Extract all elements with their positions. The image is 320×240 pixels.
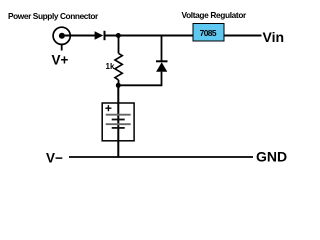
wire zener cathode lead from top rail: [161, 36, 163, 62]
svg-text:1k: 1k: [106, 62, 115, 71]
battery cell plate short (negative): [112, 119, 125, 121]
battery BT1 enclosure box: [102, 103, 134, 141]
svg-text:GND: GND: [256, 149, 287, 165]
label GND: [256, 149, 287, 165]
label "Voltage Regulator": [182, 10, 248, 20]
battery cell plate long (positive, top): [106, 114, 131, 116]
svg-text:V−: V−: [46, 151, 63, 166]
wire lower link from node B to zener anode: [118, 84, 161, 86]
node B junction dot (resistor bottom / battery top): [116, 83, 121, 88]
resistor R1 zigzag: [115, 53, 122, 80]
battery polarity + mark: [105, 105, 111, 111]
label Vin: [263, 29, 285, 45]
wire top rail from regulator output to Vin terminal: [224, 35, 262, 37]
power supply connector J1 (barrel jack circle): [53, 27, 70, 50]
svg-text:7085: 7085: [200, 28, 217, 38]
wire top rail from D1 cathode through node A to regulator input: [105, 35, 193, 37]
wire zener anode lead down to lower link: [161, 72, 163, 87]
svg-text:V+: V+: [52, 53, 69, 68]
label V-: [46, 151, 63, 166]
wire resistor bottom lead: [118, 80, 120, 85]
svg-text:Vin: Vin: [263, 29, 285, 45]
wire battery vertical from node B through battery to ground rail: [117, 85, 119, 157]
wire top rail from connector to diode D1 anode: [64, 35, 95, 37]
battery cell plate long (positive, lower): [106, 123, 131, 125]
svg-text:Voltage Regulator: Voltage Regulator: [182, 10, 248, 20]
wire resistor top lead: [118, 36, 120, 54]
battery cell plate short (negative, bottom): [112, 127, 125, 129]
label V+: [52, 53, 69, 68]
voltage regulator U1 box 7085: [193, 24, 224, 42]
diode D1: [95, 31, 105, 40]
label "Power Supply Connector": [8, 11, 99, 21]
wire ground rail from V- terminal to GND terminal: [69, 156, 253, 158]
node A junction dot (top of resistor): [116, 33, 121, 38]
svg-text:Power Supply Connector: Power Supply Connector: [8, 11, 99, 21]
value label 1k: [106, 62, 115, 71]
zener diode D2 (cathode up): [156, 61, 168, 71]
